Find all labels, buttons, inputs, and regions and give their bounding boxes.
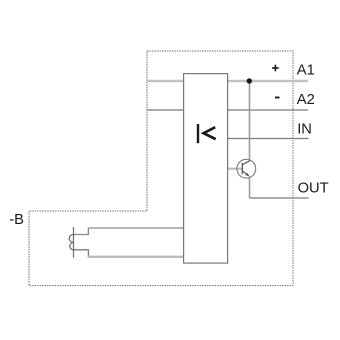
junction node on A1 wire [247,78,252,83]
wire OUT segment [250,197,309,199]
dashed enclosure border (device outline) [29,51,293,286]
wire IN segment [228,138,309,140]
svg-text:-B: -B [9,212,24,228]
wire emitter lead down to OUT [249,177,251,199]
undercurrent symbol I< inside block [197,124,216,143]
svg-text:IN: IN [297,122,312,138]
inductive sensor coil (Bero) [69,227,73,258]
wire coil top to block [74,228,184,235]
wire base of transistor [228,168,243,170]
wire coil bottom step [74,250,89,257]
wire A2 left segment [147,109,184,111]
transistor Q1 (NPN output stage) [237,159,256,178]
block U1 (current monitoring relay body) [184,74,228,264]
wire A1 left segment [147,80,184,82]
wire A1 right segment [228,80,308,82]
svg-text:A1: A1 [297,62,315,78]
wire coil bottom run to block [88,256,184,258]
wire collector drop from node to transistor [249,81,251,161]
wire A2 right segment [228,109,308,111]
svg-text:A2: A2 [297,92,315,108]
minus polarity mark [275,97,280,99]
plus polarity mark [272,65,279,72]
svg-text:OUT: OUT [298,180,329,196]
